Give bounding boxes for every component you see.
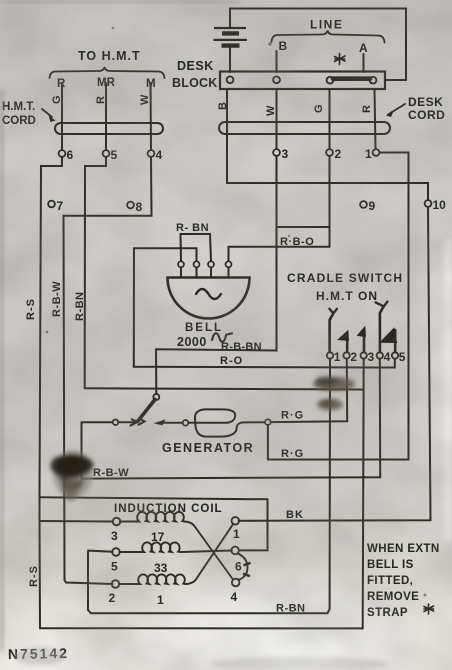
wire from terminal 5 jog left <box>85 157 106 388</box>
svg-text:H.M.T ON: H.M.T ON <box>316 289 378 303</box>
svg-text:R·B-O: R·B-O <box>280 236 314 248</box>
terminal 7 (spare) <box>48 201 55 208</box>
svg-text:1: 1 <box>157 593 164 607</box>
strap between W and G columns <box>277 226 330 228</box>
cradle blade 5 (large flag) <box>379 327 397 352</box>
cradle contact 5 <box>392 352 398 358</box>
desk block terminal (W) <box>273 76 280 83</box>
svg-text:BELL: BELL <box>185 322 223 334</box>
label DESK BLOCK <box>172 59 217 90</box>
bell terminal a <box>178 261 184 267</box>
svg-text:2000: 2000 <box>177 335 207 349</box>
wire bell left lead to R-O <box>134 248 197 367</box>
cradle contact 1 <box>327 352 333 358</box>
desk block <box>220 72 385 90</box>
svg-text:R-B-W: R-B-W <box>93 467 129 479</box>
bell gong <box>168 278 250 319</box>
cradle contact 3 <box>361 352 367 358</box>
strap G-R in desk block <box>333 76 370 81</box>
terminal 1 <box>373 149 380 156</box>
svg-text:2: 2 <box>109 591 116 605</box>
svg-text:4: 4 <box>156 148 163 162</box>
svg-text:8: 8 <box>136 200 143 214</box>
svg-text:2: 2 <box>350 350 357 364</box>
wire R-BN run to cradle contact 3 column <box>85 388 364 389</box>
svg-text:FITTED,: FITTED, <box>367 575 413 587</box>
svg-text:9: 9 <box>369 199 376 213</box>
wire cradle contact 3 column down to bottom run <box>363 359 364 628</box>
svg-text:LINE: LINE <box>310 18 343 32</box>
strap R-BN over bell <box>181 234 212 261</box>
cradle blade 1 (hook) <box>329 309 337 352</box>
svg-text:3: 3 <box>111 529 118 543</box>
terminal 6 <box>59 150 66 157</box>
svg-text:H.M.T.: H.M.T. <box>2 101 35 113</box>
svg-text:1: 1 <box>334 350 341 364</box>
induction coil terminal 4 <box>232 579 240 587</box>
wire LINE A down to desk block <box>363 54 365 72</box>
svg-text:W: W <box>139 94 151 105</box>
svg-text:R-S: R-S <box>25 298 37 320</box>
svg-text:CORD: CORD <box>2 115 36 127</box>
cradle blade 2 (flag) <box>337 330 349 352</box>
wire winding 33 to coil terminal 6 <box>182 551 232 553</box>
wire R-O: bell lead across to cradle contact 5 <box>134 359 395 368</box>
wire BK: coil terminal 1 to terminal 10 column <box>239 207 431 521</box>
label DESK CORD with arrow <box>386 95 445 122</box>
wire winding 17 to coil terminal 4 (crossover) <box>185 522 233 580</box>
wire hmt W column <box>150 83 153 150</box>
bell terminal stubs to gong <box>181 268 229 278</box>
wire G column: block to terminal 2 <box>329 90 331 150</box>
generator G1 loop <box>188 409 265 436</box>
svg-text:STRAP: STRAP <box>367 607 408 619</box>
wire hmt R column <box>105 83 107 150</box>
wire R-B-W: switch arm down to cradle contact 4 <box>82 359 381 479</box>
cradle contact 4 <box>377 352 383 358</box>
bell terminal b <box>194 261 200 267</box>
svg-text:INDUCTION COIL: INDUCTION COIL <box>114 503 223 515</box>
wire coil terminal 5 lead <box>88 551 113 553</box>
wire winding 1 to coil terminal 1 (crossover) <box>187 524 234 585</box>
svg-text:R·G: R·G <box>281 410 304 422</box>
wire bottom run to cradle contact 3 column <box>40 627 363 629</box>
svg-text:R-B-W: R-B-W <box>51 281 63 317</box>
svg-text:5: 5 <box>111 560 118 574</box>
svg-text:R-B-BN: R-B-BN <box>221 341 262 353</box>
wire cradle contact 1 column down to R-BN <box>88 359 330 613</box>
wire junction down to lower R-G <box>267 425 269 460</box>
desk block terminal (B) <box>227 76 234 83</box>
wire R-G upper: junction to cradle contact 2 <box>271 359 348 422</box>
svg-text:GENERATOR: GENERATOR <box>162 441 254 455</box>
svg-text:R: R <box>361 105 373 113</box>
svg-text:CRADLE SWITCH: CRADLE SWITCH <box>287 271 403 285</box>
generator switch pivot <box>153 394 159 400</box>
bell AC squiggle <box>196 289 221 299</box>
svg-text:R- BN: R- BN <box>176 222 209 234</box>
svg-text:R·G: R·G <box>281 448 304 460</box>
induction coil terminal 1 (right) <box>232 517 240 525</box>
svg-text:BK: BK <box>286 509 304 521</box>
desk block terminal (R) <box>370 77 377 84</box>
svg-text:10: 10 <box>433 198 447 212</box>
ink smudge blob (left, over R-B-W junction) <box>51 450 94 501</box>
induction coil terminal 6 <box>231 547 239 555</box>
svg-text:DESK: DESK <box>177 59 214 73</box>
battery B1 <box>214 28 248 46</box>
strap marker star <box>335 54 346 65</box>
wire switch lever arm left and down <box>82 422 135 478</box>
cradle blade 4 (tall hook) <box>376 302 388 352</box>
induction coil terminal 3 <box>113 518 121 526</box>
wire battery negative to desk block terminal B <box>229 46 231 72</box>
wire from terminal 4 jog left <box>64 157 152 216</box>
svg-text:R-BN: R-BN <box>74 292 86 322</box>
svg-text:3: 3 <box>368 350 375 364</box>
strap tick marks <box>244 563 250 576</box>
wire R-S from terminal 6 down left side <box>40 157 63 628</box>
svg-text:WHEN EXTN: WHEN EXTN <box>367 543 440 555</box>
cradle contact 2 <box>343 352 349 358</box>
wire battery positive to top rail <box>230 9 406 81</box>
svg-text:R-BN: R-BN <box>276 603 306 615</box>
svg-text:R-O: R-O <box>220 355 243 367</box>
generator loop terminal <box>183 420 189 426</box>
svg-text:33: 33 <box>154 561 168 575</box>
svg-text:DESK: DESK <box>408 95 443 109</box>
hmt cord sheath <box>55 123 163 134</box>
svg-text:7: 7 <box>57 199 64 213</box>
note WHEN EXTN BELL IS FITTED REMOVE STRAP <box>367 543 440 619</box>
svg-text:4: 4 <box>384 350 391 364</box>
label H.M.T. CORD with arrow <box>2 101 56 127</box>
svg-text:1: 1 <box>233 527 240 541</box>
svg-text:A: A <box>359 41 368 55</box>
desk cord sheath <box>219 122 390 134</box>
wire terminal 1 right and down to lower R-G <box>380 153 409 460</box>
coil winding 17 <box>120 512 185 522</box>
ink smudge (over cradle contact 1 wire) <box>313 377 355 411</box>
svg-text:1: 1 <box>365 147 372 161</box>
svg-text:BELL IS: BELL IS <box>367 559 414 571</box>
wire R-G lower: across to terminal-1 column <box>268 459 409 461</box>
induction coil terminal 2 <box>112 580 120 588</box>
svg-text:6: 6 <box>235 560 242 574</box>
svg-text:BLOCK: BLOCK <box>172 76 217 90</box>
desk block terminal (G) <box>327 77 334 84</box>
bell terminal d <box>226 261 232 267</box>
svg-text:G: G <box>313 104 325 113</box>
switch arm terminal <box>113 420 119 426</box>
coil winding 1 <box>119 574 186 584</box>
wire R-S branch to coil terminal 6 <box>40 497 268 550</box>
svg-text:3: 3 <box>282 147 289 161</box>
cradle blade 3 (small flag) <box>357 326 366 353</box>
svg-text:R-S: R-S <box>28 565 40 587</box>
generator output junction <box>265 419 271 425</box>
svg-text:4: 4 <box>231 590 238 604</box>
terminal 10 <box>425 200 432 207</box>
wire R-S branch to coil terminal 3 <box>40 520 114 523</box>
switch fixed contact chevrons <box>131 419 145 426</box>
wire R column: block to terminal 1 <box>375 90 376 150</box>
svg-text:2: 2 <box>335 147 342 161</box>
wire R-B-BN: terminal-3 column down to generator switch pivot <box>156 156 277 394</box>
terminal 5 <box>103 150 110 157</box>
wire desk block B column down then across to terminal 10 <box>227 90 428 200</box>
terminal 9 (spare) <box>360 201 367 208</box>
label 2000 ohms <box>177 333 232 349</box>
generator switch blade <box>138 400 156 422</box>
wire LINE B down to desk block <box>276 51 278 72</box>
wire R-B-W column down to induction coil terminal 2 <box>64 216 113 584</box>
coil winding 33 <box>119 542 181 552</box>
svg-text:6: 6 <box>67 148 74 162</box>
generator drive arrow <box>154 419 183 425</box>
svg-text:5: 5 <box>399 350 406 364</box>
LINE brace <box>272 31 385 43</box>
TO H.M.T brace <box>50 67 165 78</box>
terminal 3 <box>273 149 280 156</box>
bell terminal c <box>208 261 214 267</box>
terminal 4 <box>148 150 155 157</box>
svg-text:CORD: CORD <box>408 108 445 122</box>
svg-text:W: W <box>265 105 277 116</box>
svg-text:5: 5 <box>111 148 118 162</box>
terminal 8 (spare) <box>127 202 134 209</box>
svg-text:B: B <box>279 39 288 53</box>
svg-text:TO H.M.T: TO H.M.T <box>78 49 141 63</box>
wire R-B-O: terminal 2 down, across to bell <box>229 156 330 261</box>
removable strap between coil terminals 6 and 4 <box>238 554 248 580</box>
wire hmt G column <box>61 83 63 150</box>
terminal 2 <box>326 149 333 156</box>
note strap star <box>424 604 434 614</box>
induction coil terminal 5 <box>112 548 120 556</box>
wire W column: block to terminal 3 <box>276 90 278 150</box>
svg-text:REMOVE: REMOVE <box>367 591 419 603</box>
